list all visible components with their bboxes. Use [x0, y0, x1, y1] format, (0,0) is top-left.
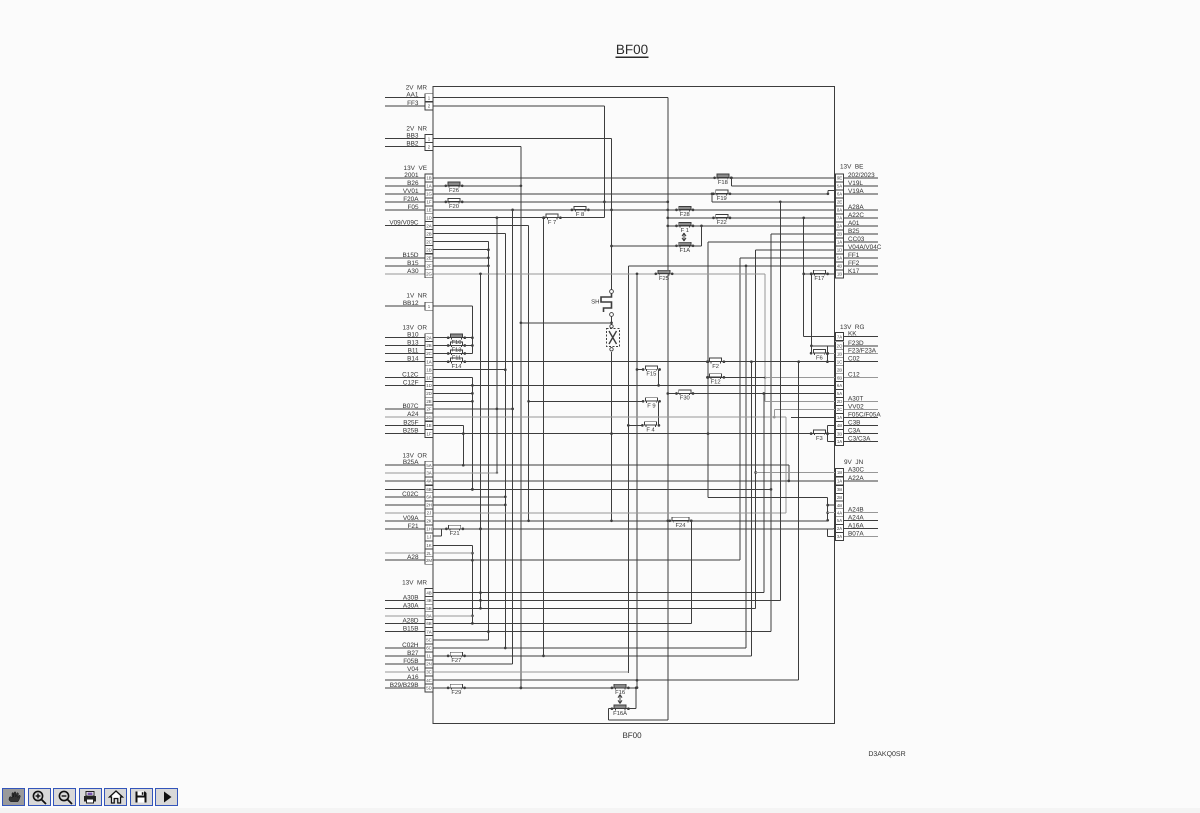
svg-text:5A: 5A [837, 184, 842, 189]
svg-text:2C: 2C [837, 407, 843, 412]
svg-text:F30: F30 [680, 395, 690, 402]
wire row17 left [433, 234, 507, 650]
svg-text:F 1: F 1 [681, 228, 689, 234]
svg-text:1F: 1F [426, 431, 431, 436]
label F11 [452, 356, 462, 362]
svg-text:B25: B25 [848, 228, 860, 235]
fuse F14 [447, 358, 466, 363]
label F8 [576, 211, 584, 218]
svg-text:1V NR: 1V NR [406, 293, 427, 300]
wire KK row [804, 218, 878, 337]
wire A28 row [385, 559, 740, 561]
svg-text:2A: 2A [426, 335, 431, 340]
fuse F1A [675, 242, 694, 247]
svg-text:F11: F11 [452, 356, 462, 362]
svg-text:F25: F25 [659, 275, 669, 282]
wire A30T row gray [765, 401, 878, 403]
arrow symbol between F16 and F16A [618, 695, 622, 704]
svg-text:1B: 1B [837, 351, 842, 356]
wire F7 row [433, 216, 604, 219]
svg-text:B15D: B15D [403, 252, 419, 259]
svg-text:2E: 2E [837, 200, 842, 205]
svg-text:9E: 9E [837, 176, 842, 181]
wire V04 row gray [385, 671, 628, 673]
svg-text:F21: F21 [450, 530, 460, 537]
label F24 [676, 522, 687, 529]
wire F05C/F05A row [791, 417, 878, 419]
label F4 [646, 428, 655, 434]
svg-text:C3A: C3A [848, 428, 861, 435]
wire F23D row [810, 273, 878, 354]
wire SH feed row [521, 322, 612, 324]
svg-text:2E: 2E [426, 256, 431, 261]
wire row52 gray [385, 512, 786, 514]
svg-text:4B: 4B [837, 264, 842, 269]
label F27 [451, 657, 461, 664]
wire A16 row [385, 362, 799, 681]
svg-text:1D: 1D [837, 248, 843, 253]
wire row56 [433, 545, 474, 624]
svg-text:5A: 5A [837, 256, 842, 261]
svg-text:B10: B10 [407, 332, 419, 339]
svg-text:F 4: F 4 [646, 428, 655, 434]
svg-text:A01: A01 [848, 220, 860, 227]
svg-text:6A: 6A [426, 495, 431, 500]
svg-text:1C: 1C [426, 375, 432, 380]
wire F4 row [628, 424, 643, 426]
svg-text:7A: 7A [837, 334, 842, 339]
wire B13 row [385, 345, 472, 347]
wire V19L row [730, 176, 878, 185]
svg-text:A30A: A30A [403, 602, 419, 609]
svg-text:F 8: F 8 [576, 211, 584, 218]
svg-text:C12C: C12C [402, 372, 419, 379]
fuse F17 [810, 270, 829, 275]
wire F1 loop [612, 225, 703, 246]
svg-text:BB12: BB12 [403, 300, 419, 307]
svg-text:B29/B29B: B29/B29B [390, 682, 419, 689]
svg-text:1B: 1B [837, 470, 842, 475]
svg-text:C12F: C12F [403, 379, 419, 386]
wire C12C row [385, 378, 474, 491]
svg-text:F1A: F1A [679, 248, 690, 254]
svg-text:C02: C02 [848, 356, 860, 363]
svg-text:B25A: B25A [403, 459, 419, 466]
fuse F3 [810, 430, 829, 435]
svg-text:F05B: F05B [403, 658, 418, 665]
svg-text:5B: 5B [426, 606, 431, 611]
svg-text:F17: F17 [814, 276, 824, 282]
left pin strip [425, 94, 433, 692]
svg-text:F23/F23A: F23/F23A [848, 348, 877, 355]
svg-text:F2: F2 [712, 363, 719, 370]
svg-text:FF2: FF2 [848, 260, 860, 267]
svg-text:2M: 2M [426, 558, 432, 563]
fuse F30 [675, 390, 694, 395]
label F10 [452, 339, 462, 346]
fuse F4 [641, 422, 660, 427]
svg-text:4B: 4B [837, 503, 842, 508]
svg-text:8A: 8A [837, 208, 842, 213]
label F1 [681, 228, 689, 234]
wire row18 left [433, 242, 490, 640]
svg-text:8A: 8A [426, 614, 431, 619]
svg-text:V19A: V19A [848, 188, 864, 195]
svg-text:B15: B15 [407, 260, 419, 267]
svg-text:F22: F22 [717, 219, 727, 226]
svg-text:B27: B27 [407, 650, 419, 657]
label F26 [449, 187, 459, 194]
wire B25 row [771, 234, 878, 632]
svg-text:A30T: A30T [848, 396, 863, 403]
svg-text:A24: A24 [407, 411, 419, 418]
svg-text:A28A: A28A [848, 204, 864, 211]
svg-text:B26: B26 [407, 180, 419, 187]
svg-text:2E: 2E [426, 399, 431, 404]
wire B27 row [385, 218, 751, 658]
svg-text:1H: 1H [426, 527, 432, 532]
wire C02C row [385, 496, 505, 498]
label F9 [647, 403, 655, 410]
wire row37 left [433, 392, 472, 394]
wire AA1 net [385, 98, 669, 721]
svg-text:2B: 2B [426, 343, 431, 348]
svg-text:A24A: A24A [848, 514, 864, 521]
wire BB12 net [385, 306, 474, 353]
wire row38 left [433, 400, 472, 402]
svg-text:A16A: A16A [848, 523, 864, 530]
svg-text:7A: 7A [426, 629, 431, 634]
svg-text:1A: 1A [426, 184, 431, 189]
svg-text:B25B: B25B [403, 428, 419, 435]
svg-text:2001: 2001 [404, 172, 419, 179]
fuse F7 [543, 214, 562, 219]
svg-text:F27: F27 [451, 657, 461, 664]
svg-text:1A: 1A [837, 479, 842, 484]
wire 2E row [712, 194, 836, 203]
svg-text:B07C: B07C [403, 403, 419, 410]
wire C12F-6A row [385, 384, 836, 386]
svg-text:13V BE: 13V BE [840, 164, 863, 171]
toolbar [2, 788, 181, 806]
wire F9 row [529, 401, 659, 425]
label F12 [711, 379, 721, 386]
fuse F15 [642, 366, 661, 371]
svg-text:F24: F24 [676, 522, 687, 529]
wire A24 row gray [385, 417, 786, 513]
wire A30 gray row [385, 272, 766, 401]
svg-text:F23D: F23D [848, 340, 864, 347]
svg-text:F18: F18 [718, 179, 728, 186]
svg-text:2A: 2A [426, 223, 431, 228]
svg-text:2D: 2D [837, 399, 843, 404]
wire B10 row [385, 337, 472, 339]
svg-text:2N: 2N [426, 662, 432, 667]
wire row57 gray [385, 552, 472, 554]
svg-text:2G: 2G [426, 415, 432, 420]
fuse F18 [713, 174, 732, 179]
svg-text:F10: F10 [452, 339, 462, 346]
svg-text:7A: 7A [837, 216, 842, 221]
svg-text:6B: 6B [426, 487, 431, 492]
svg-text:KK: KK [848, 331, 857, 338]
wire V09/V09C net [385, 226, 530, 522]
svg-text:F19: F19 [717, 195, 727, 202]
wire B25F row [385, 426, 465, 467]
svg-text:SH: SH [591, 299, 599, 306]
wire A22A row [385, 480, 878, 482]
wire F20A row [385, 201, 668, 203]
svg-text:5C: 5C [426, 638, 432, 643]
svg-text:5A: 5A [426, 463, 431, 468]
wire A30B row [385, 202, 780, 601]
svg-text:V04A/V04C: V04A/V04C [848, 244, 882, 251]
label F17 [814, 276, 824, 282]
svg-text:3B: 3B [426, 598, 431, 603]
svg-text:1E: 1E [426, 208, 431, 213]
svg-text:13V OR: 13V OR [402, 325, 427, 332]
svg-text:VV02: VV02 [848, 404, 864, 411]
svg-text:B25F: B25F [403, 420, 418, 427]
wire A24A row [844, 519, 879, 521]
svg-text:2G: 2G [426, 272, 432, 277]
svg-text:1D: 1D [426, 215, 432, 220]
svg-text:4A: 4A [837, 510, 842, 515]
wire A01 row [668, 225, 878, 227]
svg-text:C12: C12 [848, 372, 860, 379]
svg-text:F14: F14 [452, 364, 463, 370]
right pin strip [836, 174, 844, 541]
svg-text:F26: F26 [449, 187, 459, 194]
label F22 [717, 219, 727, 226]
wire row34 left [433, 369, 505, 371]
svg-text:B11: B11 [408, 348, 419, 355]
label F15 [646, 372, 656, 378]
svg-text:3B: 3B [837, 487, 842, 492]
wire B07A row gray [828, 536, 878, 538]
wire FF1 row [740, 258, 878, 560]
svg-text:4C: 4C [426, 678, 432, 683]
svg-text:F15: F15 [646, 372, 656, 378]
fuse F12 [706, 374, 725, 379]
wire A22C row [668, 217, 878, 220]
wire C3/C3A row [827, 441, 878, 443]
svg-text:A30: A30 [407, 268, 419, 275]
svg-text:4B: 4B [837, 423, 842, 428]
svg-text:1A: 1A [837, 240, 842, 245]
wire B25A row [385, 465, 790, 482]
svg-text:6A: 6A [837, 192, 842, 197]
svg-text:2C: 2C [426, 239, 432, 244]
svg-text:F20: F20 [449, 203, 459, 210]
fuse F13 [447, 342, 466, 347]
svg-text:13V MR: 13V MR [402, 580, 427, 587]
svg-text:BB2: BB2 [406, 141, 419, 148]
svg-text:F12: F12 [711, 379, 721, 386]
svg-text:F13: F13 [452, 347, 462, 354]
svg-text:2B: 2B [837, 232, 842, 237]
switch SH [591, 290, 613, 317]
svg-text:3C: 3C [426, 670, 432, 675]
wire B26 row [385, 185, 521, 187]
wire B07C row [385, 408, 514, 411]
wire F21-A16A row [385, 528, 878, 537]
label F1A [679, 248, 690, 254]
svg-text:2D: 2D [426, 391, 432, 396]
label F18 [718, 179, 728, 186]
svg-text:F3: F3 [816, 435, 823, 442]
fuse F20 [444, 198, 463, 203]
svg-text:1B: 1B [837, 272, 842, 277]
svg-text:5D: 5D [426, 686, 432, 691]
fuse F1 [675, 222, 694, 227]
svg-text:2B: 2B [837, 367, 842, 372]
wire A24B row gray [828, 512, 878, 514]
wire A30 vertical [479, 274, 482, 610]
wire BB3-SH net [385, 139, 613, 523]
svg-text:C02H: C02H [402, 642, 419, 649]
svg-text:C3B: C3B [848, 420, 860, 427]
svg-text:2Q: 2Q [837, 344, 843, 349]
wire F05B row [385, 210, 513, 664]
label F20 [449, 203, 459, 210]
wire row49 [385, 488, 772, 491]
wire VV01-V19A row [385, 191, 878, 196]
svg-text:1B: 1B [426, 367, 431, 372]
fuse F6 [810, 350, 829, 355]
fuse F25 [654, 270, 673, 275]
wire C12 row gray [765, 377, 878, 379]
svg-text:V19L: V19L [848, 180, 863, 187]
fuse F22 [712, 214, 731, 219]
svg-text:2B: 2B [426, 231, 431, 236]
svg-text:2A: 2A [837, 224, 842, 229]
fuse F11 [447, 350, 466, 355]
svg-text:3B: 3B [837, 431, 842, 436]
fuse F19 [712, 190, 731, 195]
fuse F27 [447, 652, 466, 657]
label F14 [452, 364, 463, 370]
svg-text:2H: 2H [426, 503, 432, 508]
label F16 [615, 689, 625, 696]
svg-text:A30C: A30C [848, 467, 864, 474]
svg-text:1L: 1L [427, 654, 432, 659]
svg-text:1F: 1F [426, 200, 431, 205]
svg-text:1G: 1G [426, 192, 432, 197]
wire B15D row [385, 257, 488, 259]
svg-text:F16A: F16A [613, 710, 627, 717]
wire row47 gray [385, 471, 498, 474]
wire K17 row [802, 273, 878, 276]
svg-text:6C: 6C [426, 646, 432, 651]
label F2 [712, 363, 719, 370]
relay component (dashed) [607, 325, 620, 351]
wire row19 left [433, 249, 488, 251]
fuse F16 [611, 684, 630, 689]
fuse F29 [447, 684, 466, 689]
svg-text:B07A: B07A [848, 531, 864, 538]
wire hook feed row [708, 497, 829, 521]
svg-text:2F: 2F [426, 407, 431, 412]
label F16A [613, 710, 627, 717]
svg-text:F05C/F05A: F05C/F05A [848, 412, 881, 419]
svg-text:202/2023: 202/2023 [848, 172, 875, 179]
label F21 [450, 530, 460, 537]
svg-text:F05: F05 [407, 204, 418, 211]
wire V09A-F24 row [385, 520, 828, 522]
fuse F16A [611, 705, 630, 710]
wire C02H row [385, 647, 746, 649]
wire A30C row gray [756, 472, 878, 474]
svg-text:1J: 1J [427, 535, 432, 540]
svg-text:V09A: V09A [403, 515, 419, 522]
wire row62 [433, 394, 764, 593]
wire pin4B stub [828, 504, 836, 506]
wire BB2 net [385, 147, 522, 690]
label F28 [680, 211, 690, 218]
wire B14-C02 row [385, 360, 878, 363]
wire F24-A28D vertical [690, 519, 693, 623]
fuse F2 [706, 358, 725, 363]
svg-text:2K: 2K [426, 519, 431, 524]
svg-text:A16: A16 [407, 674, 419, 681]
wire B15 row [385, 265, 488, 267]
svg-text:A30B: A30B [403, 594, 419, 601]
svg-text:FF3: FF3 [407, 100, 419, 107]
fuse F28 [675, 206, 694, 211]
wire FF3 net [385, 106, 606, 218]
svg-text:2A: 2A [837, 526, 842, 531]
svg-text:F29: F29 [451, 689, 461, 696]
svg-text:C3/C3A: C3/C3A [848, 436, 871, 443]
fuse F9 [642, 398, 661, 403]
svg-text:1E: 1E [426, 423, 431, 428]
wire A28D row [385, 622, 691, 624]
fuse F10 [447, 334, 466, 339]
label F30 [680, 395, 690, 402]
label F7 [548, 220, 556, 226]
wire C3B row [826, 426, 878, 442]
wire F16A loop [497, 218, 636, 709]
svg-text:BF00: BF00 [622, 731, 642, 740]
svg-text:4A: 4A [426, 479, 431, 484]
arrow symbol between F1 and F1A [682, 233, 686, 241]
svg-text:A28D: A28D [403, 617, 419, 624]
fuse F8 [571, 206, 590, 211]
svg-text:F 9: F 9 [647, 403, 655, 410]
wire F25 vertical [636, 274, 639, 689]
svg-text:9V JN: 9V JN [844, 459, 864, 466]
wire F12 row [708, 376, 765, 378]
svg-text:3A: 3A [426, 471, 431, 476]
svg-text:C02C: C02C [402, 491, 419, 498]
svg-text:3A: 3A [837, 534, 842, 539]
svg-text:2V MR: 2V MR [406, 85, 428, 92]
svg-text:V04: V04 [407, 666, 419, 673]
fuse F26 [444, 182, 463, 187]
svg-text:A22C: A22C [848, 212, 864, 219]
wire F05-A28A row [385, 209, 878, 212]
wire VV02 row gray [773, 410, 878, 419]
svg-text:A22A: A22A [848, 475, 864, 482]
svg-text:6B: 6B [837, 375, 842, 380]
svg-text:1A: 1A [837, 439, 842, 444]
label F13 [452, 347, 462, 354]
svg-text:FF1: FF1 [848, 252, 860, 259]
wire F6 hook [826, 346, 829, 363]
wire V04A/V04C row [754, 250, 878, 608]
wire row65 gray [385, 615, 472, 617]
